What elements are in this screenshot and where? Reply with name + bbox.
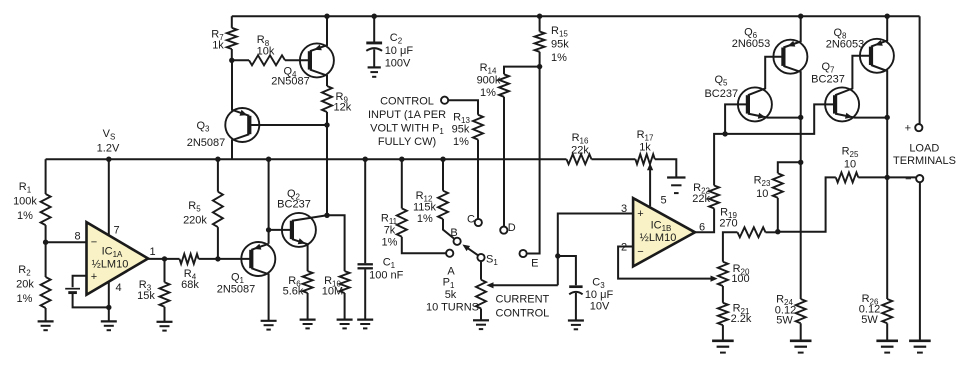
resistor R14	[499, 74, 509, 97]
svg-text:22k: 22k	[692, 193, 710, 205]
svg-text:D: D	[508, 222, 516, 234]
ground R24	[790, 339, 812, 342]
wire battery top link	[73, 276, 87, 288]
wire minus terminal link	[887, 176, 916, 178]
resistor R17 (trimmer)	[635, 154, 654, 164]
transistor Q4 collector	[310, 70, 327, 86]
wire P1 bottom lead	[480, 309, 482, 321]
wire C3 top link	[558, 256, 576, 285]
wire R4 to Q1 base	[199, 258, 252, 260]
wire pin7 lead	[108, 159, 110, 235]
switch contact B	[454, 238, 461, 245]
wire R11 top lead	[401, 159, 403, 208]
svg-text:1%: 1%	[551, 52, 567, 64]
svg-text:100 nF: 100 nF	[369, 270, 404, 282]
wire R23 top jog	[778, 162, 801, 173]
resistor R4	[180, 254, 199, 264]
node pin7 on mid rail	[106, 157, 111, 162]
svg-text:900k: 900k	[477, 75, 501, 87]
transistor Q2 circle	[282, 213, 316, 247]
svg-text:10 TURNS: 10 TURNS	[426, 302, 479, 314]
svg-text:2N6053: 2N6053	[732, 38, 771, 50]
svg-text:+: +	[905, 123, 911, 135]
wire R26 bottom lead	[886, 323, 888, 341]
switch contact A	[446, 250, 453, 257]
transistor Q8 circle	[860, 39, 894, 73]
wire R8 to Q4 base	[285, 59, 310, 61]
node Q6 emitter on top rail	[798, 14, 803, 19]
resistor R23	[773, 173, 783, 198]
wire C1 top lead	[364, 159, 366, 263]
wire R20 to R21	[722, 286, 724, 303]
svg-text:7k: 7k	[384, 225, 396, 237]
transistor Q4 emitter	[310, 16, 327, 51]
ground load minus	[909, 339, 931, 342]
wire pin4 lead	[108, 282, 110, 322]
node R23 tap	[798, 160, 803, 165]
resistor R16	[567, 154, 592, 164]
svg-text:1k: 1k	[212, 40, 224, 52]
wire R25 left jog	[778, 177, 836, 231]
capacitor C1 bottom plate	[358, 267, 373, 269]
wire R11 to A contact	[402, 237, 446, 254]
transistor Q6 circle	[773, 40, 807, 74]
resistor R1	[41, 194, 51, 225]
svg-text:5.6k: 5.6k	[283, 286, 304, 298]
transistor Q7 circle	[825, 87, 859, 121]
svg-text:10V: 10V	[590, 301, 610, 313]
wire R3 bottom lead	[164, 307, 166, 322]
svg-text:+: +	[637, 208, 643, 220]
svg-text:100V: 100V	[385, 58, 411, 70]
wire pin6 output to R22	[695, 208, 714, 232]
node Q6 collector/Q5 emitter	[798, 115, 803, 120]
svg-text:7: 7	[113, 225, 119, 237]
wire R9 bottom to Q2 collector node	[326, 112, 328, 215]
wire battery bottom link	[73, 294, 109, 308]
svg-text:C: C	[467, 214, 475, 226]
resistor R9	[322, 86, 332, 112]
svg-text:TERMINALS: TERMINALS	[893, 155, 956, 167]
transistor Q8 emitter arrow (PNP)	[875, 40, 883, 46]
svg-text:LOAD: LOAD	[909, 143, 939, 155]
node Q4 emitter on top rail	[324, 14, 329, 19]
transistor Q3 emitter	[232, 60, 249, 116]
resistor R7	[227, 28, 237, 49]
node Q8 emitter on top rail	[885, 14, 890, 19]
node Q8 collector/Q7 emitter	[885, 115, 890, 120]
svg-text:2N5087: 2N5087	[271, 76, 310, 88]
svg-text:95k: 95k	[452, 124, 470, 136]
battery long plate	[65, 288, 80, 290]
wire R19 right lead	[766, 231, 778, 233]
wire S1 to P1	[480, 261, 482, 280]
svg-text:½LM10: ½LM10	[92, 259, 129, 271]
op-amp IC1B	[633, 198, 695, 266]
wire C2 bottom lead	[373, 49, 375, 67]
transistor Q5 base bar	[746, 95, 750, 113]
wire R7 top lead	[231, 16, 233, 28]
svg-text:10k: 10k	[257, 46, 275, 58]
node R25/load junction	[885, 175, 890, 180]
resistor R8	[249, 55, 285, 65]
wire R25 right lead	[858, 176, 887, 178]
wire R20 top corner to R19	[723, 232, 738, 261]
wire IC1A output	[148, 258, 179, 260]
ground P1	[473, 319, 489, 321]
transistor Q5 circle	[738, 87, 772, 121]
node Q1 emitter/Q2 base	[266, 227, 271, 232]
wire drop to + load terminal	[919, 16, 921, 124]
transistor Q4 emitter arrow (PNP)	[314, 45, 322, 51]
svg-text:12k: 12k	[334, 102, 352, 114]
transistor Q8 collector	[871, 65, 887, 299]
resistor R13	[473, 115, 483, 140]
svg-text:1k: 1k	[639, 142, 651, 154]
svg-text:−: −	[637, 246, 643, 258]
resistor R24	[796, 299, 806, 323]
wire P1 wiper feedback	[489, 284, 558, 286]
transistor Q1 base bar	[249, 250, 253, 268]
wire left rail	[45, 159, 47, 194]
svg-text:E: E	[531, 258, 538, 270]
svg-text:10M: 10M	[322, 286, 343, 298]
wire R22 top jog	[714, 134, 725, 186]
wire Q3 base to node	[249, 124, 327, 126]
wire R5 top lead	[217, 159, 219, 192]
transistor Q5 collector	[748, 57, 784, 95]
resistor R5	[213, 192, 223, 227]
wire top supply rail	[232, 15, 920, 17]
ground C1	[357, 319, 373, 321]
ground R26	[876, 339, 898, 342]
transistor Q7 base bar	[833, 95, 837, 113]
transistor Q2 emitter	[292, 239, 308, 271]
svg-text:1%: 1%	[480, 87, 496, 99]
transistor Q3 base bar	[247, 116, 251, 134]
ground R17 rail end	[667, 176, 685, 178]
svg-text:4: 4	[115, 282, 121, 294]
resistor R2	[41, 277, 51, 308]
transistor Q6 emitter arrow (PNP)	[788, 41, 796, 47]
switch contact C	[475, 219, 482, 226]
svg-text:5W: 5W	[861, 314, 878, 326]
ground C2	[368, 66, 381, 68]
svg-text:10: 10	[756, 188, 768, 200]
wire R3 top lead	[164, 259, 166, 282]
node C1 on mid rail	[363, 157, 368, 162]
svg-text:10 μF: 10 μF	[585, 289, 614, 301]
wire pin5 arrowhead to R17 wiper	[647, 163, 653, 170]
ground IC1A pin4	[101, 320, 117, 322]
svg-text:BC237: BC237	[277, 199, 311, 211]
ground R2	[38, 320, 54, 322]
svg-text:22k: 22k	[571, 145, 589, 157]
svg-text:2N5087: 2N5087	[217, 284, 256, 296]
resistor R21	[718, 303, 728, 325]
svg-text:20k: 20k	[16, 279, 34, 291]
svg-text:1: 1	[149, 246, 155, 258]
svg-text:INPUT (1A PER: INPUT (1A PER	[368, 109, 446, 121]
transistor Q2 collector	[292, 215, 327, 220]
node R19/R23/R25 junction	[775, 229, 780, 234]
svg-text:1%: 1%	[453, 136, 469, 148]
wire R15 node to E contact	[527, 67, 540, 254]
wire mid supply rail	[46, 159, 677, 177]
resistor R6	[303, 271, 313, 293]
switch S1 wiper arrowhead	[462, 245, 470, 252]
wire C2 top lead	[373, 16, 375, 41]
svg-text:VOLT WITH P1: VOLT WITH P1	[370, 122, 444, 136]
node R15 on top rail	[537, 14, 542, 19]
resistor R3	[160, 282, 170, 307]
node R7/R8/Q3 junction	[229, 58, 234, 63]
terminal load -	[916, 175, 923, 182]
node IC1A output/R3	[162, 256, 167, 261]
transistor Q3 emitter arrow (PNP)	[240, 110, 248, 116]
wire Q2-base/Q1-emitter chain	[268, 159, 270, 244]
switch S1 wiper arm	[465, 246, 479, 255]
node R4/R5/Q1 junction	[215, 256, 220, 261]
svg-text:FULLY CW): FULLY CW)	[378, 136, 436, 148]
transistor Q6 emitter	[783, 16, 800, 47]
transistor Q5 emitter	[748, 114, 801, 118]
wire Q7 base run	[725, 104, 835, 133]
resistor R22	[709, 186, 719, 209]
capacitor C2 curved plate	[366, 48, 382, 51]
wire minus terminal drop	[919, 182, 921, 341]
transistor Q1 collector	[251, 268, 268, 321]
wire R12 top lead	[442, 159, 444, 191]
ground R21	[712, 339, 734, 342]
ground Q1 collector	[261, 320, 277, 322]
svg-text:8: 8	[74, 230, 80, 242]
transistor Q7 emitter	[835, 114, 887, 118]
wire R6 bottom lead	[307, 293, 309, 320]
wire R10 top jog	[327, 215, 345, 271]
transistor Q7 emitter arrow (NPN)	[845, 113, 853, 119]
wire R23 bottom lead	[777, 198, 779, 232]
wire R14 top jog	[504, 67, 540, 75]
battery short plate	[68, 291, 77, 294]
svg-text:95k: 95k	[551, 39, 569, 51]
svg-text:3: 3	[621, 203, 627, 215]
resistor R12	[438, 191, 448, 219]
terminal CONTROL INPUT	[441, 97, 448, 104]
ground R6	[300, 319, 316, 321]
potentiometer P1 wiper arrowhead	[486, 282, 493, 288]
svg-text:+: +	[91, 271, 97, 283]
wire R14 to D contact	[503, 97, 505, 227]
wire R7 bottom lead	[231, 49, 233, 60]
wire R5 bottom lead	[217, 227, 219, 259]
capacitor C2 top plate	[366, 41, 382, 44]
wire pin2 feedback	[618, 247, 715, 279]
transistor Q2 base bar	[290, 221, 294, 239]
potentiometer P1	[476, 280, 486, 309]
wire pin8 lead	[46, 241, 87, 243]
node Q2 collector/R10 junction	[324, 213, 329, 218]
svg-text:1%: 1%	[382, 237, 398, 249]
svg-text:10 μF: 10 μF	[385, 45, 414, 57]
transistor Q1 emitter arrow (PNP)	[254, 244, 262, 250]
transistor Q4 base bar	[308, 51, 312, 69]
ground C3	[568, 319, 584, 321]
wire C1 bottom lead	[364, 269, 366, 319]
svg-text:220k: 220k	[183, 215, 207, 227]
ground R10	[337, 319, 353, 321]
switch S1 wiper contact	[477, 254, 484, 261]
node Q5/Q7 base junction	[722, 131, 727, 136]
node Q2 base chain on mid rail	[266, 157, 271, 162]
transistor Q5 emitter arrow (NPN)	[758, 113, 766, 119]
svg-text:5: 5	[660, 195, 666, 207]
capacitor C3 top plate	[569, 285, 582, 288]
svg-text:1.2V: 1.2V	[97, 143, 120, 155]
resistor R19	[738, 227, 766, 237]
transistor Q8 emitter	[871, 16, 887, 46]
svg-text:5W: 5W	[776, 315, 793, 327]
transistor Q4 circle	[300, 43, 334, 77]
svg-text:15k: 15k	[137, 290, 155, 302]
svg-text:−: −	[905, 174, 911, 186]
node R15/R14 junction	[537, 64, 542, 69]
svg-text:2N5087: 2N5087	[187, 137, 226, 149]
svg-text:BC237: BC237	[704, 88, 738, 100]
wire R15 top lead	[539, 16, 541, 31]
svg-text:2.2k: 2.2k	[731, 313, 752, 325]
transistor Q2 emitter arrow (NPN)	[298, 238, 306, 244]
wire R21 bottom lead	[722, 325, 724, 341]
capacitor C3 curved plate	[569, 292, 582, 294]
node R11 on mid rail	[399, 157, 404, 162]
wire R2 bottom lead	[45, 308, 47, 321]
svg-text:1%: 1%	[417, 213, 433, 225]
wire R1 to R2	[45, 225, 47, 277]
svg-text:10: 10	[844, 159, 856, 171]
wire wiper to pin3 riser	[558, 214, 633, 286]
node R12 on mid rail	[440, 157, 445, 162]
transistor Q8 base bar	[869, 47, 873, 65]
node pin3/wiper/C3 junction	[555, 253, 560, 258]
transistor Q6 collector	[783, 66, 800, 299]
switch contact E	[520, 250, 527, 257]
svg-text:100: 100	[731, 273, 749, 285]
node Q3 base junction	[324, 122, 329, 127]
resistor R25	[836, 172, 859, 182]
transistor Q1 emitter	[251, 244, 268, 250]
svg-text:68k: 68k	[181, 279, 199, 291]
wire Q5 base riser	[725, 104, 748, 133]
wire Q2 base wire	[269, 229, 292, 231]
wire control input to R13	[448, 100, 478, 115]
svg-text:B: B	[450, 227, 457, 239]
svg-text:CONTROL: CONTROL	[380, 95, 434, 107]
wire pin5 riser	[649, 167, 651, 207]
wire R13 to C contact	[477, 140, 479, 219]
svg-text:BC237: BC237	[811, 74, 845, 86]
svg-text:5k: 5k	[445, 289, 457, 301]
node R1/R2/pin8 junction	[43, 240, 48, 245]
wire R10 bottom lead	[344, 293, 346, 320]
svg-text:CONTROL: CONTROL	[496, 308, 550, 320]
wire R20 wiper arrowhead	[711, 276, 718, 282]
svg-text:2N6053: 2N6053	[826, 39, 865, 51]
resistor R10	[340, 271, 350, 293]
node battery/pin4 junction	[106, 305, 111, 310]
svg-text:1%: 1%	[17, 293, 33, 305]
transistor Q6 base bar	[781, 48, 785, 66]
svg-text:270: 270	[719, 218, 737, 230]
wire R15 bottom lead	[539, 52, 541, 67]
svg-text:115k: 115k	[413, 202, 437, 214]
transistor Q7 collector	[835, 56, 871, 95]
terminal load +	[915, 124, 922, 131]
potentiometer R20	[718, 262, 728, 286]
transistor Q1 circle	[241, 242, 275, 276]
svg-text:½LM10: ½LM10	[640, 232, 677, 244]
wire R24 bottom lead	[800, 323, 802, 341]
resistor R26	[882, 299, 892, 323]
svg-text:CURRENT: CURRENT	[496, 294, 550, 306]
node C2 on top rail	[372, 14, 377, 19]
transistor Q3 circle	[225, 108, 259, 142]
wire R8 left lead	[232, 59, 249, 61]
svg-text:1%: 1%	[17, 210, 33, 222]
ground R3	[157, 321, 173, 323]
switch contact D	[500, 227, 507, 234]
svg-text:100k: 100k	[13, 196, 37, 208]
svg-text:−: −	[91, 237, 97, 249]
wire C3 bottom lead	[575, 293, 577, 321]
resistor R15	[535, 32, 545, 52]
transistor Q3 collector	[232, 134, 249, 159]
resistor R11	[397, 208, 407, 236]
wire R12 to B contact	[443, 219, 454, 239]
capacitor C1 top plate	[358, 263, 373, 265]
node R5 on mid rail	[215, 157, 220, 162]
op-amp IC1A	[87, 222, 149, 295]
